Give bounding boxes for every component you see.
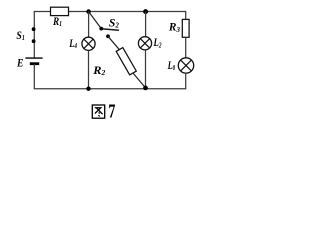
wire L4 branch upper <box>88 12 90 38</box>
caption: figure label 图 7 <box>92 105 104 118</box>
lamp L2 <box>138 37 151 50</box>
node: R2/L2/bottom-wire junction <box>143 86 148 91</box>
node: L4 branch to bottom wire junction <box>86 87 90 91</box>
resistor R1 <box>51 7 69 15</box>
svg-text:7: 7 <box>108 101 115 123</box>
lamp L4 <box>82 37 95 50</box>
wire R2 branch upper diagonal <box>108 36 120 50</box>
resistor R2 (tilted) <box>116 48 136 75</box>
wire R3 to L0 <box>185 37 187 58</box>
wire right branch upper <box>185 11 187 20</box>
resistor R3 (vertical) <box>182 19 189 37</box>
wire bottom horizontal <box>34 88 185 90</box>
wire L4 branch lower <box>88 50 90 88</box>
wire top horizontal <box>34 11 185 13</box>
wire L2 branch upper <box>145 12 147 37</box>
wire L2 branch lower <box>145 50 147 89</box>
battery E <box>25 58 42 64</box>
node A: top junction of L4 branch and S2 <box>86 9 91 14</box>
switch S2 (open) <box>89 12 119 39</box>
wire left vertical (corner to battery) <box>33 11 35 58</box>
svg-text:E: E <box>16 57 24 69</box>
switch S1 (closed, contact dots on wire) <box>32 27 36 43</box>
wire R2 branch lower diagonal <box>133 73 145 88</box>
wire battery to bottom-left corner <box>33 64 35 90</box>
lamp L0 <box>178 58 193 73</box>
wire L0 to bottom-right corner <box>185 73 187 89</box>
node: top junction of L2 branch <box>143 9 148 14</box>
